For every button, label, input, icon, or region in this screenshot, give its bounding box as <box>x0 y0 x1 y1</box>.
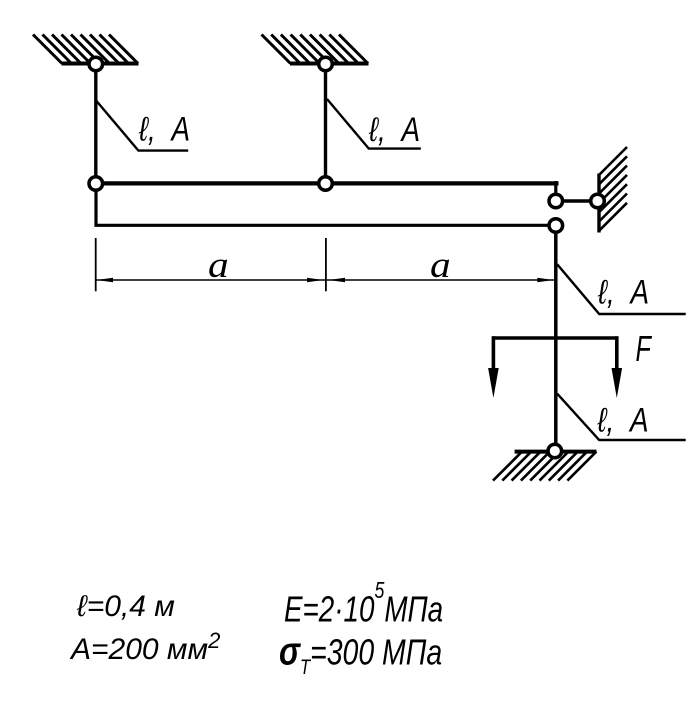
dimension line a-a <box>97 279 555 281</box>
pin P3 (rod 1 to beam) <box>89 177 103 191</box>
ground support hatching <box>493 452 596 481</box>
svg-text:a: a <box>430 245 451 286</box>
force yoke crossbar <box>493 336 616 340</box>
force arrow right head <box>612 368 623 398</box>
label rod 4: l, A <box>597 401 649 439</box>
rigid beam left edge <box>94 183 97 227</box>
pin P1 (top of rod 1) <box>89 57 103 71</box>
label rod 2: l, A <box>368 110 420 148</box>
pin PC (link to wall) <box>591 194 605 208</box>
svg-text:ℓ, A: ℓ, A <box>597 401 649 439</box>
support S2 hatching (top-middle fixed support) <box>262 35 369 64</box>
svg-text:a: a <box>208 245 229 286</box>
wall support hatching <box>599 147 627 231</box>
force arrow right shaft <box>615 336 619 370</box>
leader line for rod 3 label <box>557 264 686 314</box>
svg-text:ℓ, A: ℓ, A <box>597 273 649 311</box>
dimension extension line left <box>95 238 97 291</box>
label rod 3: l, A <box>597 273 649 311</box>
svg-text:A=200 мм2: A=200 мм2 <box>69 628 220 666</box>
rod 3 (vertical rod below beam) <box>554 226 558 452</box>
wall support baseline <box>597 174 600 233</box>
dimension arrowhead right <box>537 278 553 282</box>
link bar to wall <box>556 199 598 202</box>
given data: sigma_T = 300 MPa <box>279 628 442 680</box>
rigid beam bottom chord <box>95 224 556 227</box>
pin PB (beam right bottom, rod 3 top) <box>549 219 563 233</box>
support S1 hatching (top-left fixed support) <box>33 35 138 64</box>
support S2 baseline <box>290 62 369 66</box>
svg-text:ℓ, A: ℓ, A <box>368 110 420 148</box>
dimension arrowhead left <box>97 278 114 282</box>
force arrow left shaft <box>492 336 496 370</box>
svg-text:F: F <box>636 329 653 370</box>
pin P4 (rod 2 to beam) <box>319 177 333 191</box>
svg-text:ℓ, A: ℓ, A <box>138 110 190 148</box>
given data: E = 2e5 MPa <box>284 578 443 629</box>
force arrow left head <box>488 368 499 398</box>
rod 1 (left hanger, l, A) <box>94 64 97 184</box>
dimension arrowhead mid-left <box>307 278 323 282</box>
rod 2 (middle hanger, l, A) <box>324 64 327 184</box>
pin P2 (top of rod 2) <box>319 57 333 71</box>
leader line for rod 2 label <box>327 99 421 149</box>
svg-text:ℓ=0,4 м: ℓ=0,4 м <box>76 590 175 623</box>
support S1 baseline <box>62 62 139 66</box>
rigid beam right edge <box>554 181 557 201</box>
leader line for rod 1 label <box>97 101 189 151</box>
dimension extension line middle <box>325 238 327 291</box>
dimension arrowhead mid-right <box>329 278 345 282</box>
leader line for rod 4 label <box>557 394 686 440</box>
label F <box>636 329 653 370</box>
pin P5 (rod 3 bottom) <box>548 444 562 458</box>
label rod 1: l, A <box>138 110 190 148</box>
rigid beam top chord <box>94 181 559 185</box>
dimension label a (right span) <box>430 245 451 286</box>
ground support baseline <box>515 450 597 454</box>
dimension label a (left span) <box>208 245 229 286</box>
pin PA (beam right top) <box>549 194 563 208</box>
